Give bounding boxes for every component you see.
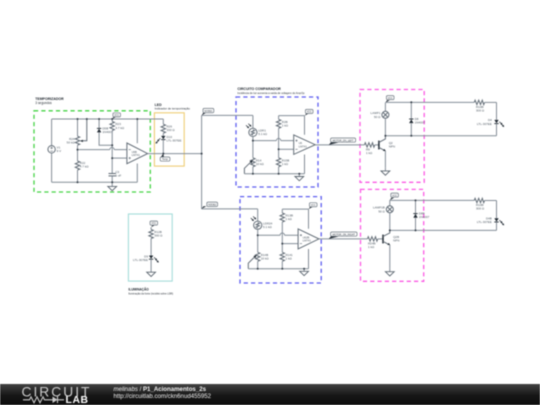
resistor R9 1k <box>364 143 379 155</box>
wire collector line right 2 <box>390 229 497 231</box>
svg-text:50 kΩ: 50 kΩ <box>67 141 76 145</box>
diode D8B 1N4007 flyback <box>413 200 429 230</box>
ground timer <box>108 182 117 191</box>
ground iluminacao <box>147 272 156 276</box>
svg-text:5.1 kΩ: 5.1 kΩ <box>263 225 273 229</box>
wire to comparator 1 <box>202 114 253 116</box>
svg-text:5.1 kΩ: 5.1 kΩ <box>258 132 268 136</box>
resistor R22 4.7k <box>75 150 89 183</box>
junction dots driver 1 <box>384 101 412 137</box>
svg-text:LTL-307EE: LTL-307EE <box>477 122 492 126</box>
wire LED branch vertical 2 <box>496 201 498 219</box>
resistor R10B 300 <box>474 100 496 112</box>
wire lamp to collector <box>384 118 386 135</box>
photoresistor LDR24 <box>251 216 273 229</box>
svg-text:1 kΩ: 1 kΩ <box>366 151 373 155</box>
source V1 9V <box>48 146 61 154</box>
wire op-amp1 output <box>148 153 202 155</box>
resistor R24B 1k <box>367 237 383 249</box>
svg-text:300 Ω: 300 Ω <box>154 234 163 238</box>
wire V1 top lead <box>51 119 53 146</box>
svg-text:U62B: U62B <box>303 235 310 239</box>
green dashed box TEMPORIZADOR <box>34 111 150 192</box>
svg-text:ILUMINAÇÃO: ILUMINAÇÃO <box>128 286 149 291</box>
svg-text:LM741: LM741 <box>132 153 141 157</box>
svg-text:1 kΩ: 1 kΩ <box>368 245 375 249</box>
lamp LAMP1 50 <box>371 111 389 119</box>
node VCC flag comparator 1 <box>305 109 313 115</box>
wire non-inverting line 2 with hop <box>258 233 298 235</box>
svg-text:1 kΩ: 1 kΩ <box>286 217 293 221</box>
node VCC flag driver 1 <box>385 96 394 103</box>
wire inverting input line 2 <box>282 243 298 245</box>
junction dots driver 2 <box>389 199 417 231</box>
svg-text:4.7 kΩ: 4.7 kΩ <box>80 165 90 169</box>
wire non-inverting line with hop <box>253 138 294 140</box>
pink dashed box driver 2 <box>361 189 424 281</box>
wire V1 bottom lead <box>51 153 53 182</box>
cyan box iluminacao <box>128 214 172 281</box>
svg-text:Indicador de temporização: Indicador de temporização <box>155 106 191 110</box>
svg-text:VCC: VCC <box>392 195 397 197</box>
node NODE1 flag <box>202 108 214 115</box>
svg-text:NODE2: NODE2 <box>208 204 217 207</box>
svg-text:1N4007: 1N4007 <box>102 130 113 134</box>
capacitor C3 1uF <box>109 170 122 182</box>
diode D8 1N4007 flyback <box>409 102 425 136</box>
LED D9 LTL-307EE <box>133 255 159 273</box>
svg-text:http://circuitlab.com/ckn6nud4: http://circuitlab.com/ckn6nud455952 <box>114 393 212 400</box>
svg-text:LM741: LM741 <box>303 239 312 243</box>
potentiometer R24 50k <box>67 119 87 145</box>
svg-text:MOTOR_ON_LEFT: MOTOR_ON_LEFT <box>333 139 354 142</box>
wire RC node vertical <box>111 145 113 173</box>
wire ground rail bottom <box>52 181 138 183</box>
node VCC flag comparator 2 <box>309 203 317 209</box>
wire rail corner into R26 <box>162 119 164 124</box>
transistor Q2 <box>379 136 395 168</box>
wire ground rail comparator 1 <box>244 173 304 175</box>
node NODE2 flag <box>202 202 218 209</box>
svg-text:Temp: Temp <box>162 158 169 161</box>
svg-text:melinabs / P1_Acionamentos_2s: melinabs / P1_Acionamentos_2s <box>114 386 207 393</box>
wire top line right 2 <box>390 199 474 201</box>
resistor R141 1k <box>280 244 293 269</box>
wire LDR1 bottom lead <box>252 137 254 141</box>
wire op-amp output to driver 2 <box>319 238 368 240</box>
op-amp U6B LM741 <box>127 119 148 182</box>
svg-text:1 kΩ: 1 kΩ <box>286 256 293 260</box>
svg-text:LM741: LM741 <box>299 144 308 148</box>
svg-text:NPN: NPN <box>393 239 399 243</box>
wire non-inverting input line <box>112 157 127 159</box>
node VCC flag timer <box>112 113 120 119</box>
blue dashed box comparador 2 <box>240 197 321 283</box>
op-amp U6 LM741 <box>294 116 316 174</box>
svg-text:MOTOR_ON_RIGHT: MOTOR_ON_RIGHT <box>333 233 356 236</box>
potentiometer R14B 10k <box>248 252 269 268</box>
junction dots output net <box>162 153 202 155</box>
wire LED branch vertical top <box>496 102 498 119</box>
wire inverting input line with hop <box>78 147 127 149</box>
node MOTOR_ON_LEFT flag <box>329 138 356 145</box>
svg-text:VCC: VCC <box>311 205 316 207</box>
svg-text:3 segundos: 3 segundos <box>35 101 52 105</box>
svg-text:10 kΩ: 10 kΩ <box>261 256 270 260</box>
svg-text:NPN: NPN <box>389 145 395 149</box>
junction dots comparator 1 <box>252 140 300 175</box>
ground comparator 1 <box>295 174 304 181</box>
wire LDR1 top lead <box>252 115 254 128</box>
LED D4B LTL-307EE <box>477 217 504 231</box>
svg-text:VCC: VCC <box>114 115 119 117</box>
wire op-amp2 output to driver 1 <box>315 144 364 146</box>
wire pot to junction <box>77 145 79 149</box>
resistor R2B 1k <box>276 116 288 150</box>
wire lamp to collector 2 <box>389 213 391 231</box>
svg-text:50 Ω: 50 Ω <box>378 209 385 213</box>
svg-text:VCC: VCC <box>388 98 393 100</box>
svg-text:1N4007: 1N4007 <box>415 121 426 125</box>
resistor R26 330 <box>161 124 175 136</box>
svg-text:1 kΩ: 1 kΩ <box>282 162 289 166</box>
wire top line right <box>385 101 474 103</box>
svg-text:4.7 kΩ: 4.7 kΩ <box>115 126 125 130</box>
wire VCC rail top <box>52 118 164 120</box>
LED D10 LTL-307EE <box>156 135 182 154</box>
resistor R12B 300 <box>149 227 163 255</box>
svg-text:330 Ω: 330 Ω <box>167 128 176 132</box>
svg-text:U6B: U6B <box>132 150 137 154</box>
svg-text:LTL-307EE: LTL-307EE <box>133 258 148 262</box>
wire ground rail comparator 2 <box>248 268 308 270</box>
photoresistor LDR1 <box>246 124 268 137</box>
svg-text:1 kΩ: 1 kΩ <box>282 123 289 127</box>
node VCC flag iluminacao <box>150 221 158 227</box>
resistor R23 4.7k <box>110 119 125 145</box>
wire LDR24 bottom lead <box>257 229 259 235</box>
svg-text:LTL-307EE: LTL-307EE <box>477 220 492 224</box>
pink dashed box driver 1 <box>360 90 424 183</box>
wire collector line right <box>385 135 496 137</box>
node VCC flag driver 2 <box>390 193 399 200</box>
resistor R13B 1k <box>280 209 293 244</box>
wire node vertical <box>201 115 203 208</box>
svg-text:Iluminação da fonte (incidirá: Iluminação da fonte (incidirá sobre LDR) <box>128 293 173 296</box>
LED D4 LTL-307EE <box>477 118 504 136</box>
ground driver 2 <box>385 268 394 276</box>
svg-text:50 Ω: 50 Ω <box>374 115 381 119</box>
node MOTOR_ON_RIGHT flag <box>329 232 357 239</box>
svg-text:U6: U6 <box>299 141 303 145</box>
wire inverting input line <box>279 148 294 150</box>
svg-text:300 Ω: 300 Ω <box>476 109 485 113</box>
logo schematic glyph wire-resistor-diode <box>23 397 64 404</box>
blue dashed box comparador 1 <box>236 97 318 187</box>
lamp LAMP1B 50 <box>373 206 393 214</box>
op-amp U62B LM741 <box>298 209 319 269</box>
svg-text:LTL-307EE: LTL-307EE <box>167 139 182 143</box>
wire to comparator 2 <box>202 208 258 210</box>
wire LDR to pot <box>252 141 254 158</box>
transistor Q2B <box>383 230 399 268</box>
svg-text:VCC: VCC <box>307 112 312 114</box>
diode D5 1N4007 <box>97 119 113 145</box>
junction dots timer <box>77 118 139 183</box>
svg-text:CIRCUITO COMPARADOR: CIRCUITO COMPARADOR <box>237 87 281 91</box>
ground driver 1 <box>381 168 390 175</box>
svg-text:Incidência de luz aumenta a sa: Incidência de luz aumenta a saída de vol… <box>237 91 305 95</box>
svg-text:VCC: VCC <box>151 223 156 225</box>
node Temp flag <box>160 154 170 162</box>
wire VCC rail comparator 2 <box>282 208 308 210</box>
svg-text:LAB: LAB <box>66 395 89 405</box>
wire LDR to pot 2 <box>257 235 259 252</box>
svg-text:1 uF: 1 uF <box>115 174 121 178</box>
svg-text:NODE1: NODE1 <box>204 110 213 113</box>
resistor R10C 300 <box>474 198 496 210</box>
wire VCC to lamp 2 <box>389 200 391 206</box>
wire VCC to lamp <box>384 103 386 112</box>
svg-text:300 Ω: 300 Ω <box>476 207 485 211</box>
wire LDR24 top lead <box>257 209 259 221</box>
svg-text:1N4007: 1N4007 <box>419 215 430 219</box>
resistor R15B 1k <box>276 149 289 173</box>
ground comparator 2 <box>300 269 309 276</box>
svg-text:10 kΩ: 10 kΩ <box>256 162 265 166</box>
wire pot column lead <box>77 119 79 136</box>
potentiometer R14 10k <box>244 158 264 174</box>
yellow box LED indicador <box>154 113 184 166</box>
svg-text:9 V: 9 V <box>57 149 62 153</box>
junction dots comparator 2 <box>257 234 305 270</box>
wire VCC rail comparator 1 <box>279 115 305 117</box>
